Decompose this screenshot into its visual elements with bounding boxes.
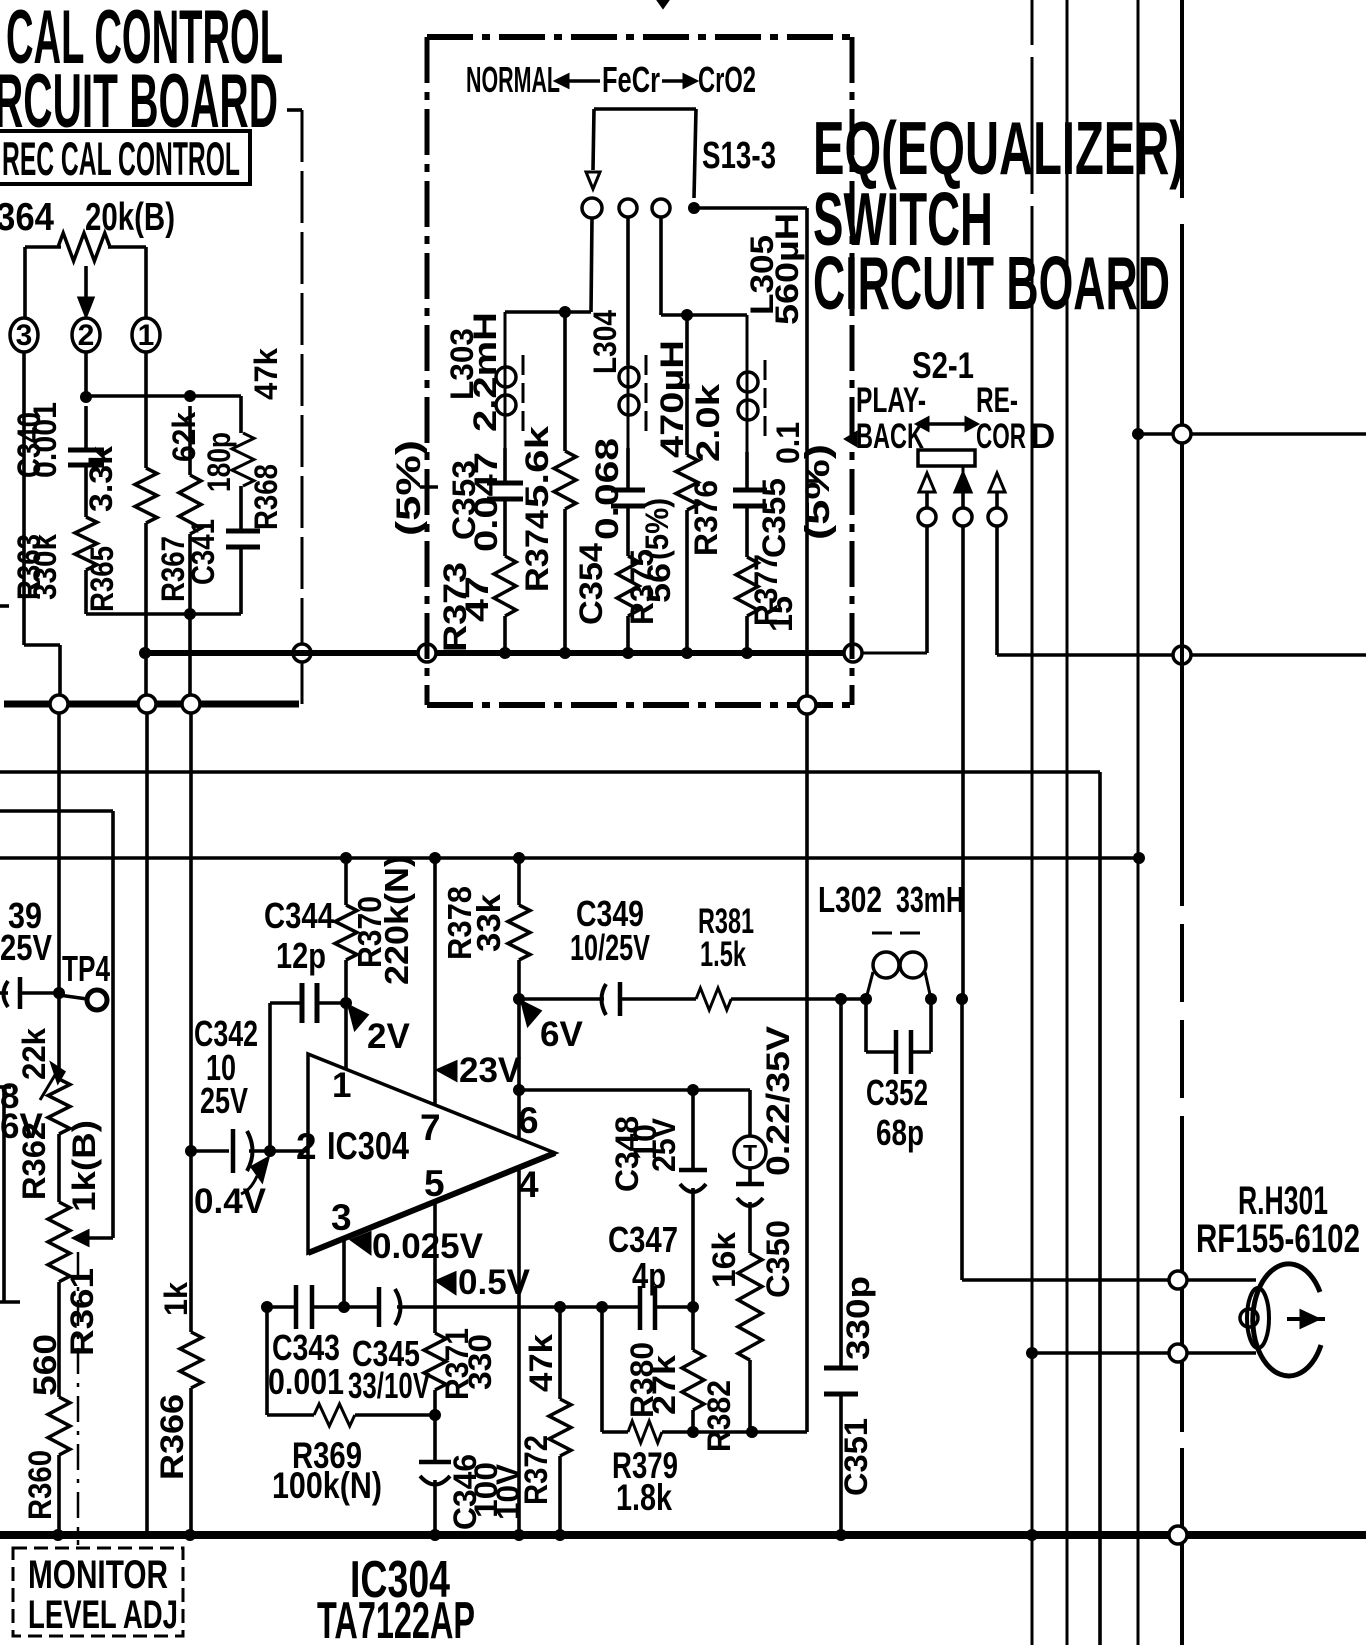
svg-text:0.025V: 0.025V [372,1227,484,1266]
svg-text:R366: R366 [154,1394,190,1480]
svg-text:TA7122AP: TA7122AP [317,1592,475,1645]
trunk wire x1138 [1137,0,1140,1645]
svg-text:C341: C341 [185,519,221,585]
svg-text:1: 1 [332,1066,351,1105]
trunk wire x1032 [1031,0,1034,1645]
arrow left [568,79,600,83]
svg-text:MONITOR: MONITOR [28,1553,168,1597]
box crossing circle [418,644,436,662]
node top rail [80,391,92,403]
svg-text:5.6k: 5.6k [519,426,555,508]
svg-text:560: 560 [27,1334,63,1396]
svg-text:C344: C344 [264,895,334,936]
svg-text:25V: 25V [200,1080,248,1121]
playback wire [925,526,929,653]
S2-1 common contact [955,473,971,492]
svg-text:0.001: 0.001 [27,402,63,478]
0.5V marker [437,1273,455,1293]
wire from terminal 2 [84,352,88,396]
svg-text:220k(N): 220k(N) [378,855,415,985]
svg-text:CrO2: CrO2 [698,59,756,100]
svg-text:1k: 1k [158,1282,194,1316]
svg-text:15: 15 [763,596,799,632]
svg-text:TP4: TP4 [62,948,110,989]
svg-text:L304: L304 [587,310,623,374]
svg-text:R361: R361 [64,1268,100,1356]
CAL board right boundary [287,108,302,112]
pin7 supply wire / 23V marker [433,858,437,1105]
boundary circle on bottom border [798,696,816,714]
svg-text:364: 364 [0,196,54,239]
feedback rail y1307 [261,1301,273,1313]
svg-text:1k(B): 1k(B) [66,1120,102,1212]
bus wire y653 [145,650,846,656]
svg-text:25V: 25V [646,1117,682,1172]
connector pin A [50,695,68,713]
svg-text:PLAY-: PLAY- [856,381,926,420]
wire y772 [0,770,1100,774]
wire from terminal 3 [22,352,26,645]
REC CAL CONTROL label box [0,131,250,184]
R364 wiper arrow [84,266,88,302]
svg-text:2: 2 [78,319,95,352]
svg-text:47k: 47k [523,1334,559,1392]
terminal 3 [10,318,38,352]
svg-text:BACK: BACK [856,417,924,456]
svg-text:4p: 4p [632,1255,666,1296]
svg-text:R362: R362 [16,1122,52,1200]
svg-text:RF155-6102: RF155-6102 [1196,1217,1360,1261]
svg-text:RE-: RE- [976,381,1018,420]
pin4 wire [517,1168,521,1535]
svg-text:100k(N): 100k(N) [272,1465,382,1506]
wire y434 [1132,428,1144,440]
svg-text:47k: 47k [248,348,284,400]
svg-text:1.8k: 1.8k [616,1477,672,1518]
svg-text:62k: 62k [166,412,202,462]
svg-text:0.001: 0.001 [268,1361,344,1402]
svg-text:56: 56 [641,563,677,603]
box crossing circle right [844,644,862,662]
boundary crossing circle [293,644,311,662]
svg-text:LEVEL ADJ: LEVEL ADJ [28,1593,178,1637]
trunk gaps (dash-dot effect) [1029,45,1035,57]
svg-text:R360: R360 [22,1450,58,1520]
svg-text:C354: C354 [573,543,609,625]
svg-text:330p: 330p [840,1276,876,1360]
left column wire [57,713,61,993]
svg-text:16k: 16k [706,1232,742,1288]
0.025V marker [352,1233,370,1253]
svg-text:6V: 6V [540,1015,583,1054]
S2-1 double arrow [928,422,966,426]
svg-text:470µH: 470µH [654,340,690,458]
long wire x147 [145,713,149,1535]
svg-text:T: T [743,1140,757,1166]
svg-text:R382: R382 [701,1380,737,1452]
svg-text:IC304: IC304 [327,1125,409,1168]
svg-text:0.4V: 0.4V [194,1182,267,1221]
svg-text:2: 2 [296,1126,317,1167]
bottom rail of R network [86,612,241,616]
wire sw3 to rail [659,217,663,315]
svg-text:33k: 33k [470,893,507,952]
pin6 wire [517,999,521,1139]
svg-text:(5%): (5%) [799,444,837,540]
svg-text:180p: 180p [201,432,237,492]
wire to record head upper [960,999,964,1280]
pin3 wire [342,1238,346,1307]
svg-text:22k: 22k [16,1028,52,1080]
svg-text:1.5k: 1.5k [700,935,746,974]
pin1 wire [344,1003,348,1068]
supply rail y858 [0,856,1139,860]
svg-text:NORMAL: NORMAL [466,59,560,100]
svg-text:C350: C350 [760,1220,796,1298]
connector pin C [182,695,200,713]
arrow right [662,79,684,83]
svg-text:C347: C347 [608,1219,678,1260]
svg-text:R376: R376 [688,480,724,556]
R361 wiper arrow [86,1236,113,1240]
svg-text:33mH: 33mH [896,879,964,920]
svg-text:3: 3 [331,1197,352,1238]
svg-text:R372: R372 [518,1435,554,1505]
svg-text:C352: C352 [866,1072,928,1113]
svg-text:2.0k: 2.0k [690,384,726,462]
R361 gang dash link [77,1252,80,1545]
svg-text:COR: COR [976,417,1026,456]
svg-text:0.22/35V: 0.22/35V [760,1025,796,1176]
svg-text:10/25V: 10/25V [570,927,650,968]
connector pin B [138,695,156,713]
svg-text:FeCr: FeCr [602,59,660,100]
wire sw1 to rail [591,218,592,312]
svg-text:D: D [1030,417,1055,456]
MONITOR LEVEL ADJ box [13,1548,183,1636]
svg-text:20k(B): 20k(B) [85,196,175,239]
svg-text:3: 3 [16,319,33,352]
svg-text:S2-1: S2-1 [912,345,974,386]
svg-text:0.047: 0.047 [468,452,504,552]
head arrow [1287,1317,1325,1321]
svg-text:330k: 330k [27,534,63,600]
svg-text:330: 330 [462,1334,498,1390]
record wire [995,526,999,655]
svg-text:7: 7 [420,1107,441,1148]
S2-1 record contact [989,473,1005,492]
svg-text:S13-3: S13-3 [702,135,776,177]
svg-text:33/10V: 33/10V [348,1365,430,1406]
wire x1100 down [1098,772,1102,1645]
left edge stubs [0,1085,11,1089]
EQ switch board dashed box [427,34,852,40]
wire y1090 [513,1084,525,1096]
svg-text:47: 47 [459,576,495,622]
2V marker [349,1006,367,1029]
svg-text:R365: R365 [84,546,120,612]
svg-text:C351: C351 [838,1418,874,1496]
thermistor T [748,1090,752,1136]
svg-text:6: 6 [518,1100,539,1141]
wire y811 to R361 wiper [0,809,113,813]
CAL board bottom boundary bus [4,701,299,708]
terminal 2 [72,318,100,352]
svg-text:R374: R374 [519,510,555,592]
ground bus bottom [0,1531,1366,1539]
6V marker [522,1002,540,1025]
svg-text:1: 1 [138,319,155,352]
common wire down [961,526,965,999]
terminal 1 [132,318,160,352]
S2-1 playback contact [919,473,935,492]
svg-text:25V: 25V [0,927,52,968]
rail 1 [505,310,591,314]
svg-text:4: 4 [518,1164,539,1205]
svg-text:L302: L302 [818,879,882,920]
svg-text:23V: 23V [459,1051,522,1090]
trunk boundary x1182 [1180,0,1184,1645]
svg-text:REC CAL CONTROL: REC CAL CONTROL [2,132,240,185]
EQ feedback vertical wire x807 [805,208,809,696]
svg-text:3.3k: 3.3k [83,446,119,512]
0.4V marker [252,1158,268,1181]
svg-text:2V: 2V [367,1017,410,1056]
svg-text:5: 5 [424,1163,445,1204]
svg-text:12p: 12p [276,935,326,976]
svg-text:CIRCUIT BOARD: CIRCUIT BOARD [813,241,1170,325]
svg-text:27k: 27k [646,1355,682,1415]
svg-text:68p: 68p [876,1112,924,1153]
svg-text:560µH: 560µH [769,213,805,325]
incoming signal arrow top [658,0,668,7]
trunk wire x1067 [1066,0,1069,1645]
head lower wire [1026,1347,1038,1359]
op-amp IC304 triangle [308,1054,555,1253]
svg-text:R368: R368 [248,464,284,530]
